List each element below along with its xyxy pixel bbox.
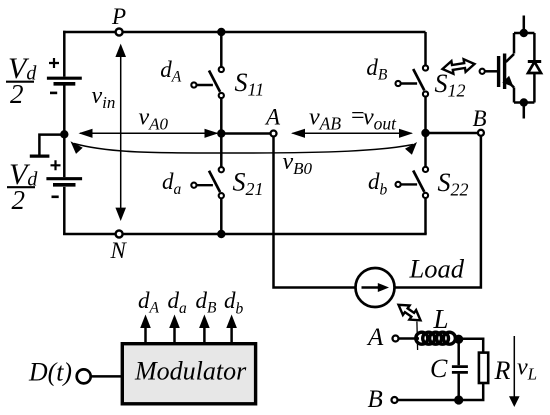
svg-text:2: 2 [12, 185, 26, 215]
svg-text:Load: Load [409, 254, 465, 284]
svg-text:vin: vin [92, 83, 116, 112]
filter terminal B [392, 397, 398, 403]
wire node B horizontal [426, 132, 478, 135]
junction dot leg B mid [421, 129, 429, 137]
svg-text:da: da [168, 288, 188, 317]
node N [116, 231, 123, 238]
svg-text:vAB: vAB [309, 105, 341, 134]
filter terminal A [393, 336, 399, 342]
IGBT emitter arrow [502, 76, 513, 87]
ground [39, 135, 62, 156]
capacitor C [457, 341, 460, 400]
svg-text:A: A [264, 105, 281, 130]
svg-text:vL: vL [517, 355, 537, 384]
wire node A horizontal [221, 132, 270, 135]
junction dot filter bottom [454, 395, 463, 404]
open double arrow load [399, 305, 421, 321]
switch S21 [191, 167, 224, 198]
vB0 curved arrow [74, 144, 413, 154]
wire left rail vertical [63, 31, 66, 235]
svg-text:R: R [494, 356, 511, 385]
svg-text:D(t): D(t) [28, 358, 72, 387]
IGBT gate terminal [480, 69, 485, 74]
svg-text:B: B [473, 106, 487, 131]
modulator arrows [146, 326, 232, 342]
wire top rail P [63, 31, 425, 34]
battery V1 plates [47, 77, 82, 80]
svg-text:dA: dA [160, 57, 182, 86]
filter wires right [455, 339, 483, 400]
node P [116, 29, 123, 36]
switch S22 [396, 167, 429, 198]
junction dot leg A bottom [217, 230, 225, 238]
IGBT bottom dot [520, 98, 528, 106]
load circle [356, 268, 395, 307]
svg-text:dB: dB [366, 55, 388, 84]
junction dot filter top [454, 335, 463, 344]
svg-text:S11: S11 [235, 68, 265, 100]
svg-text:S12: S12 [435, 69, 466, 101]
inductor L [416, 332, 456, 344]
open double arrow S12 [443, 59, 475, 74]
svg-text:B: B [368, 386, 383, 413]
junction dot ground node [60, 130, 68, 138]
wire A down to load [274, 137, 356, 288]
wire A to L [399, 337, 420, 340]
battery V1 value Vd/2 [6, 52, 37, 109]
svg-text:P: P [111, 4, 126, 29]
IGBT module [485, 16, 541, 119]
svg-text:2: 2 [10, 79, 24, 109]
svg-text:C: C [430, 354, 448, 383]
battery V2 value Vd/2 [7, 158, 38, 215]
junction dot leg A top [217, 28, 225, 36]
svg-text:N: N [110, 238, 128, 263]
wire leg B upper [424, 32, 427, 133]
svg-text:S21: S21 [233, 168, 264, 200]
resistor R [479, 353, 488, 383]
battery V1 polarity [49, 58, 59, 68]
svg-text:dA: dA [138, 288, 160, 317]
vA0 arrow [80, 132, 217, 134]
IGBT top dot [520, 29, 528, 37]
svg-text:S22: S22 [438, 168, 469, 200]
wire B down to load [395, 136, 481, 288]
wire bottom rail N [63, 233, 427, 236]
switch S11 [191, 67, 224, 98]
battery V2 polarity [51, 160, 61, 170]
svg-text:Modulator: Modulator [134, 357, 247, 386]
node B [478, 130, 484, 136]
svg-text:db: db [224, 288, 244, 317]
wire leg A upper [220, 32, 223, 134]
modulator box [122, 344, 255, 404]
svg-text:L: L [433, 304, 449, 334]
svg-text:db: db [368, 169, 388, 198]
vAB=vout arrow [293, 132, 412, 134]
wire leg B lower [424, 133, 427, 234]
battery V2 plates [46, 177, 82, 180]
switch S12 [396, 65, 429, 96]
node A [271, 131, 277, 137]
vin arrow [120, 52, 122, 212]
vL arrow [513, 336, 515, 398]
svg-text:da: da [162, 169, 182, 198]
svg-text:vA0: vA0 [139, 105, 169, 134]
svg-text:A: A [366, 324, 384, 351]
svg-text:vout: vout [363, 105, 397, 134]
wire B to C [398, 399, 455, 402]
svg-text:dB: dB [196, 288, 218, 317]
wire leg A lower [220, 134, 223, 235]
junction dot leg A mid [217, 129, 225, 137]
